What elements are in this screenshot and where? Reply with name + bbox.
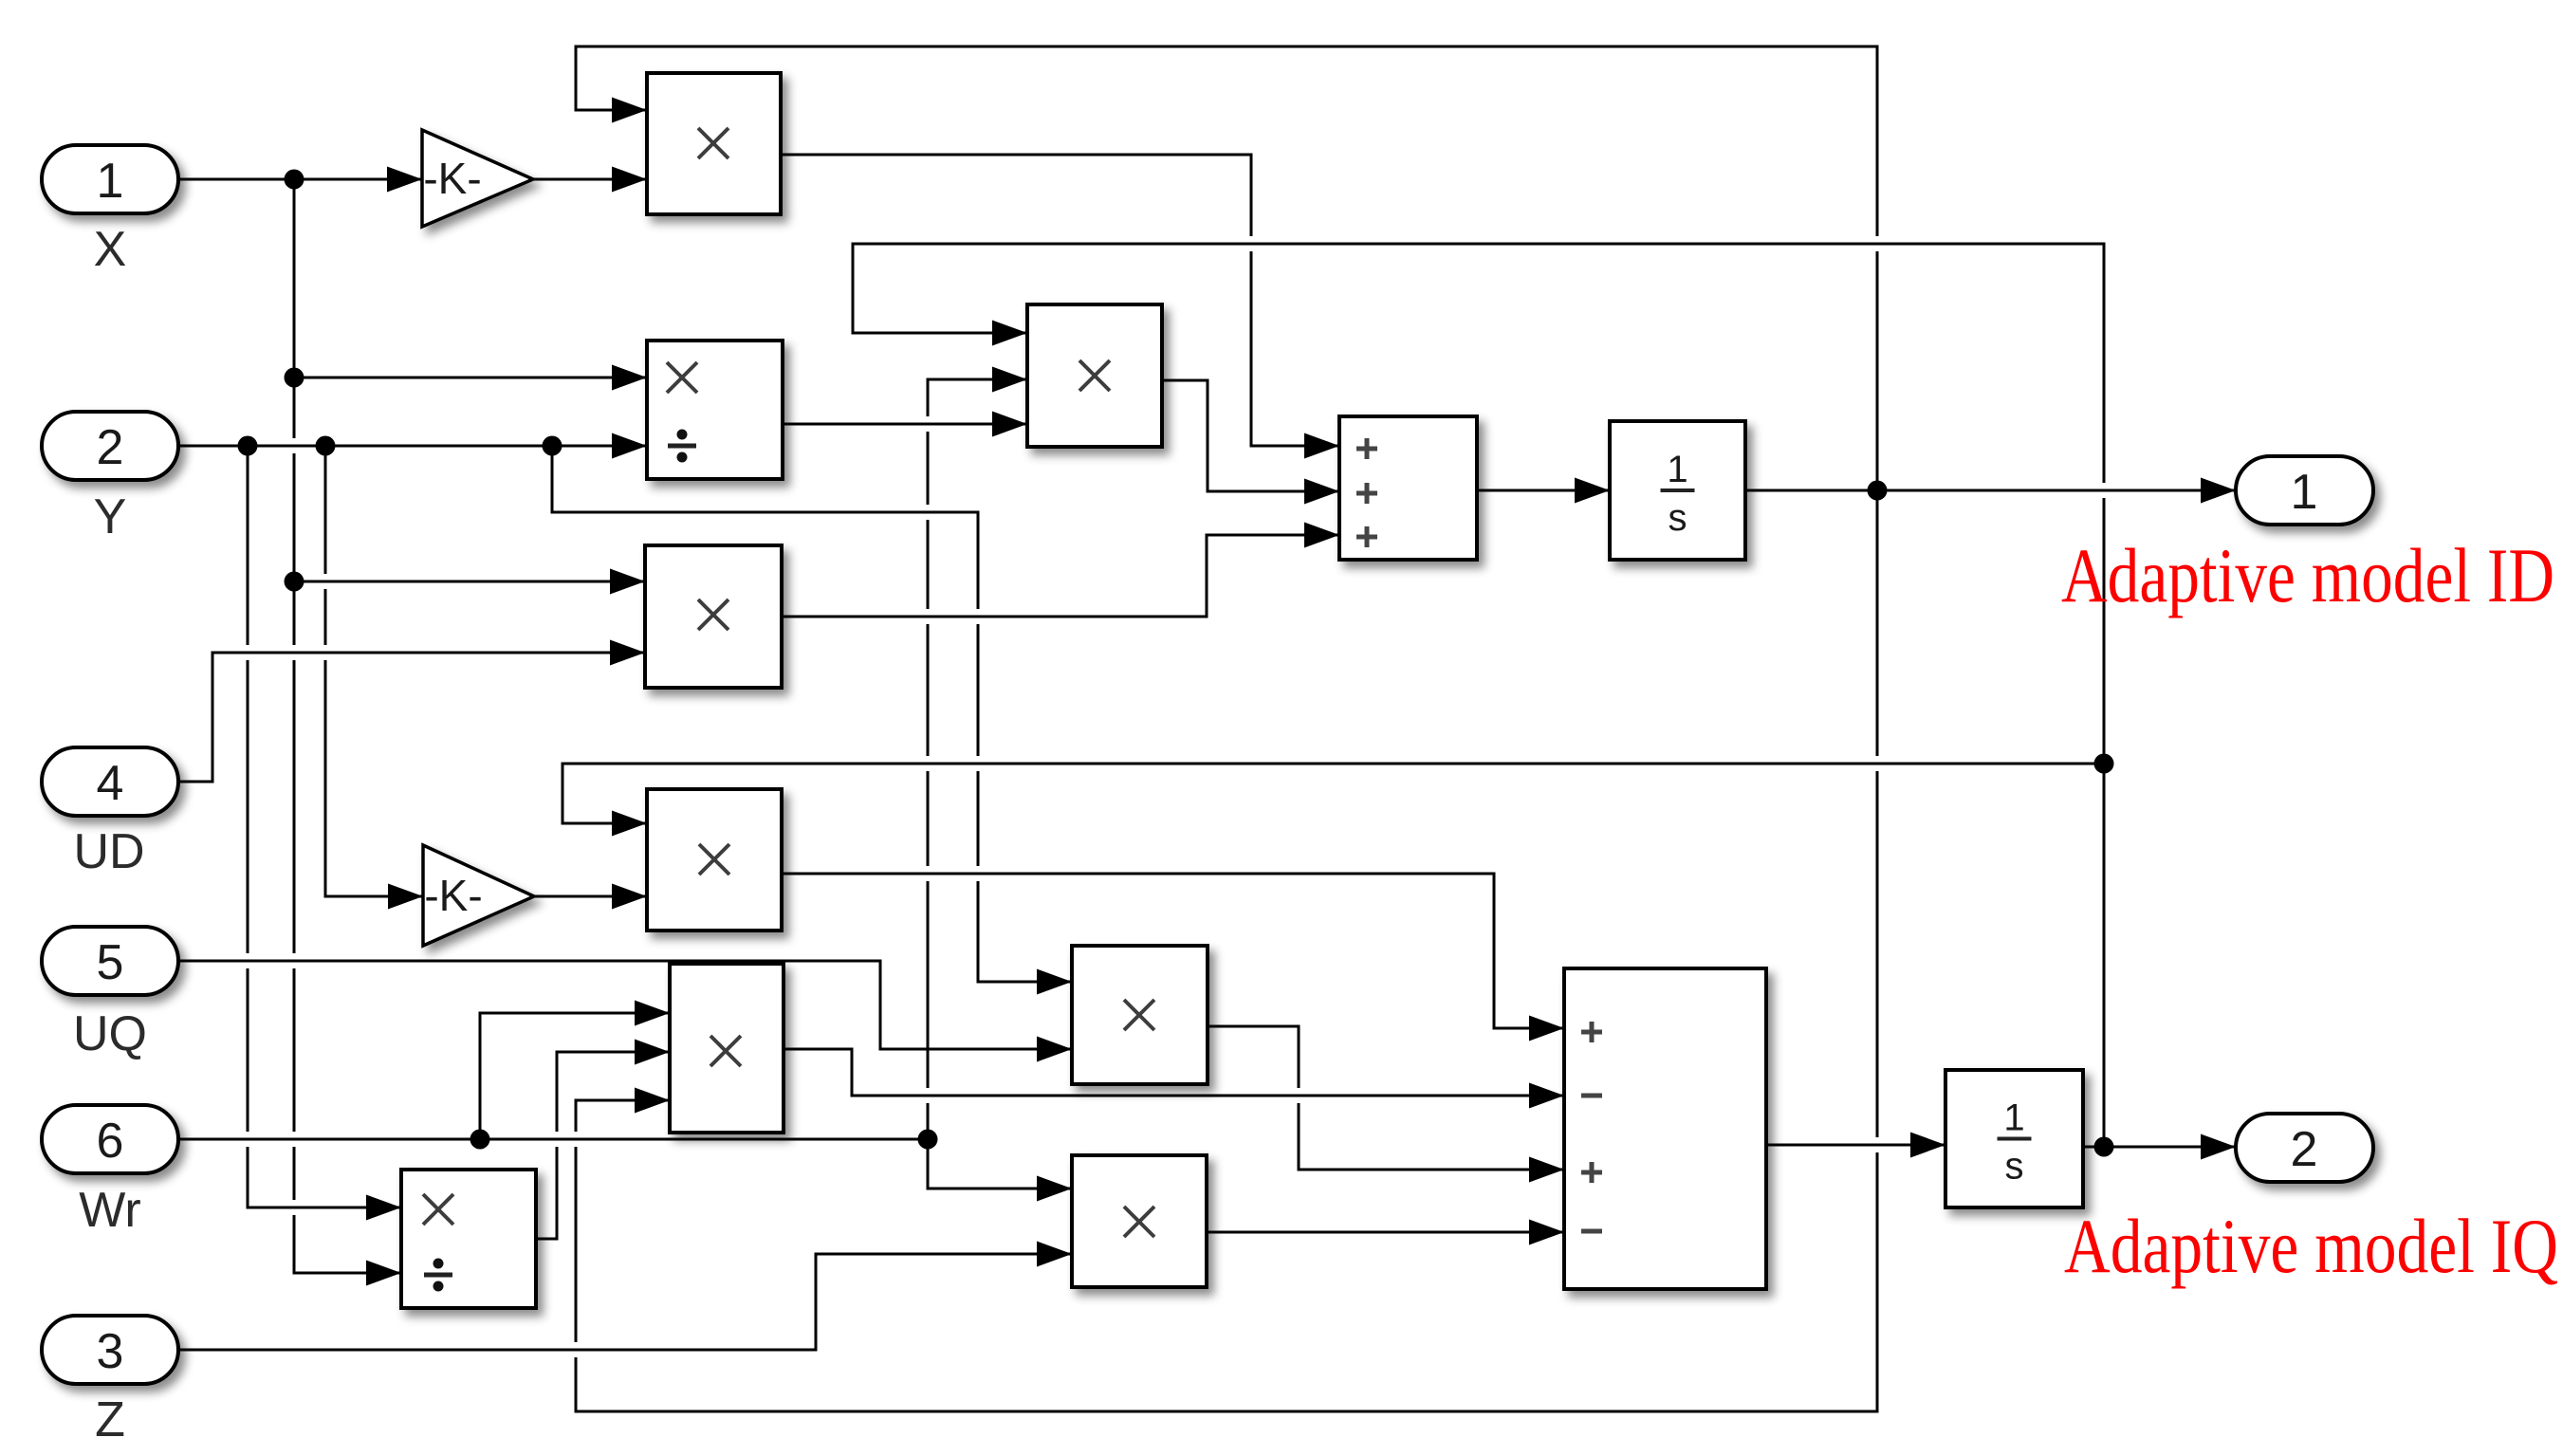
input port 6 <box>42 1105 178 1173</box>
input port 2 <box>42 412 178 480</box>
wire divide2 out to product5 in2 <box>536 1040 670 1240</box>
svg-text:4: 4 <box>97 756 124 811</box>
wire J3 to product2 in1 <box>294 569 645 595</box>
wire product3 out to sum1 in2 <box>1162 380 1339 505</box>
svg-text:6: 6 <box>97 1114 124 1169</box>
output port 2 <box>2236 1114 2373 1182</box>
wire integrator2 out to outport2 <box>2083 1134 2236 1160</box>
node ID feedback node <box>1868 481 1888 501</box>
svg-text:Adaptive model ID: Adaptive model ID <box>2061 532 2554 618</box>
node X junction J3 <box>285 572 304 592</box>
wire Y branch to product6 in1 <box>552 446 1072 995</box>
node Wr junction B <box>918 1130 938 1150</box>
wire product2 out to sum1 in3 <box>782 523 1339 617</box>
wire product5 out to sum2 in2 <box>784 1049 1564 1109</box>
wire Y branch to divide2 in1 <box>248 446 401 1221</box>
node IQ feedback node B <box>2094 754 2114 774</box>
product P2 <box>645 545 782 688</box>
wire Y to product-divide1 in2 <box>178 433 647 459</box>
wire product6 out to sum2 in3 <box>1208 1026 1564 1183</box>
svg-text:UQ: UQ <box>73 1006 147 1061</box>
svg-text:1: 1 <box>2003 1097 2024 1139</box>
svg-text:1: 1 <box>1667 449 1687 490</box>
input port 3 <box>42 1316 178 1384</box>
wire IQ feedback top to product3 in1 <box>853 244 2104 1147</box>
svg-text:Z: Z <box>95 1392 125 1447</box>
product P5 (3-input) <box>670 964 784 1133</box>
wire crossing hops <box>234 236 2117 1357</box>
svg-text:Y: Y <box>94 489 127 544</box>
wire sum1 out to integrator1 <box>1477 478 1610 504</box>
wire Wr branch to product5 in1 <box>480 1001 670 1140</box>
input port 5 <box>42 927 178 995</box>
wire Z to product7 in2 <box>178 1242 1072 1351</box>
product-divide PD2 <box>401 1170 536 1308</box>
svg-text:-K-: -K- <box>424 871 482 920</box>
integrator 1/s (IQ) <box>1945 1070 2083 1207</box>
svg-text:UD: UD <box>73 824 144 879</box>
wire X to gain K1 <box>178 167 422 193</box>
wire IQ feedback mid to product4 in1 <box>562 764 2104 837</box>
svg-text:2: 2 <box>97 420 124 475</box>
wire sum2 out to integrator2 <box>1766 1133 1945 1158</box>
wire UD to product2 in2 <box>178 640 645 783</box>
svg-text:s: s <box>1669 497 1687 539</box>
product-divide PD1 <box>647 341 783 479</box>
node Y junction A <box>238 436 258 456</box>
svg-text:5: 5 <box>97 935 124 990</box>
wire Wr line <box>178 1138 928 1141</box>
svg-text:1: 1 <box>97 154 124 209</box>
node X junction J2 <box>285 368 304 388</box>
wire ID feedback top to product1 in1 <box>576 46 1877 490</box>
svg-text:1: 1 <box>2291 465 2318 520</box>
product P3 (3-input) <box>1027 304 1162 447</box>
wire integrator1 out to outport1 <box>1745 478 2236 504</box>
wire ID feedback bottom to product5 in3 <box>576 490 1877 1411</box>
wire product-divide1 out to product3 in3 <box>783 412 1027 437</box>
svg-text:Wr: Wr <box>79 1183 140 1238</box>
svg-text:s: s <box>2005 1146 2024 1188</box>
wire Wr branch up to product3 in2 <box>928 367 1027 1140</box>
sum S2 (+-+-) <box>1564 968 1766 1289</box>
svg-text:3: 3 <box>97 1324 124 1379</box>
svg-text:2: 2 <box>2291 1122 2318 1177</box>
wire product4 out to sum2 in1 <box>782 874 1564 1041</box>
input port 1 <box>42 145 178 213</box>
svg-text:-K-: -K- <box>423 154 481 203</box>
product P4 <box>647 789 782 931</box>
product P1 (X feedback multiply) <box>647 73 781 214</box>
node Y junction C <box>543 436 562 456</box>
wire gain K2 to product4 in2 <box>533 884 647 910</box>
gain K1 <box>422 130 533 227</box>
wire product1 out to sum1 in1 <box>781 155 1339 459</box>
wire Wr branch down to product7 in1 <box>928 1139 1072 1202</box>
svg-text:Adaptive model IQ: Adaptive model IQ <box>2064 1203 2558 1289</box>
input port 4 <box>42 747 178 816</box>
wire UQ to product6 in2 <box>178 961 1072 1062</box>
gain K2 <box>423 845 534 946</box>
wire J2 to product-divide1 in1 <box>294 365 647 391</box>
node Y junction B <box>316 436 336 456</box>
wire product7 out to sum2 in4 <box>1207 1220 1564 1245</box>
output port 1 <box>2236 456 2373 525</box>
product P7 <box>1072 1155 1207 1287</box>
svg-text:X: X <box>94 222 127 277</box>
node X junction J1 <box>285 170 304 190</box>
integrator 1/s (ID) <box>1610 421 1745 560</box>
node IQ feedback node <box>2094 1137 2114 1157</box>
wire gain K1 to product1 in2 <box>533 167 647 193</box>
sum S1 (+++) <box>1339 416 1477 560</box>
wire Y branch to gain K2 <box>325 446 423 910</box>
product P6 <box>1072 946 1208 1084</box>
wire X trunk down to divide2 in2 <box>294 179 401 1286</box>
node Wr junction A <box>470 1130 490 1150</box>
